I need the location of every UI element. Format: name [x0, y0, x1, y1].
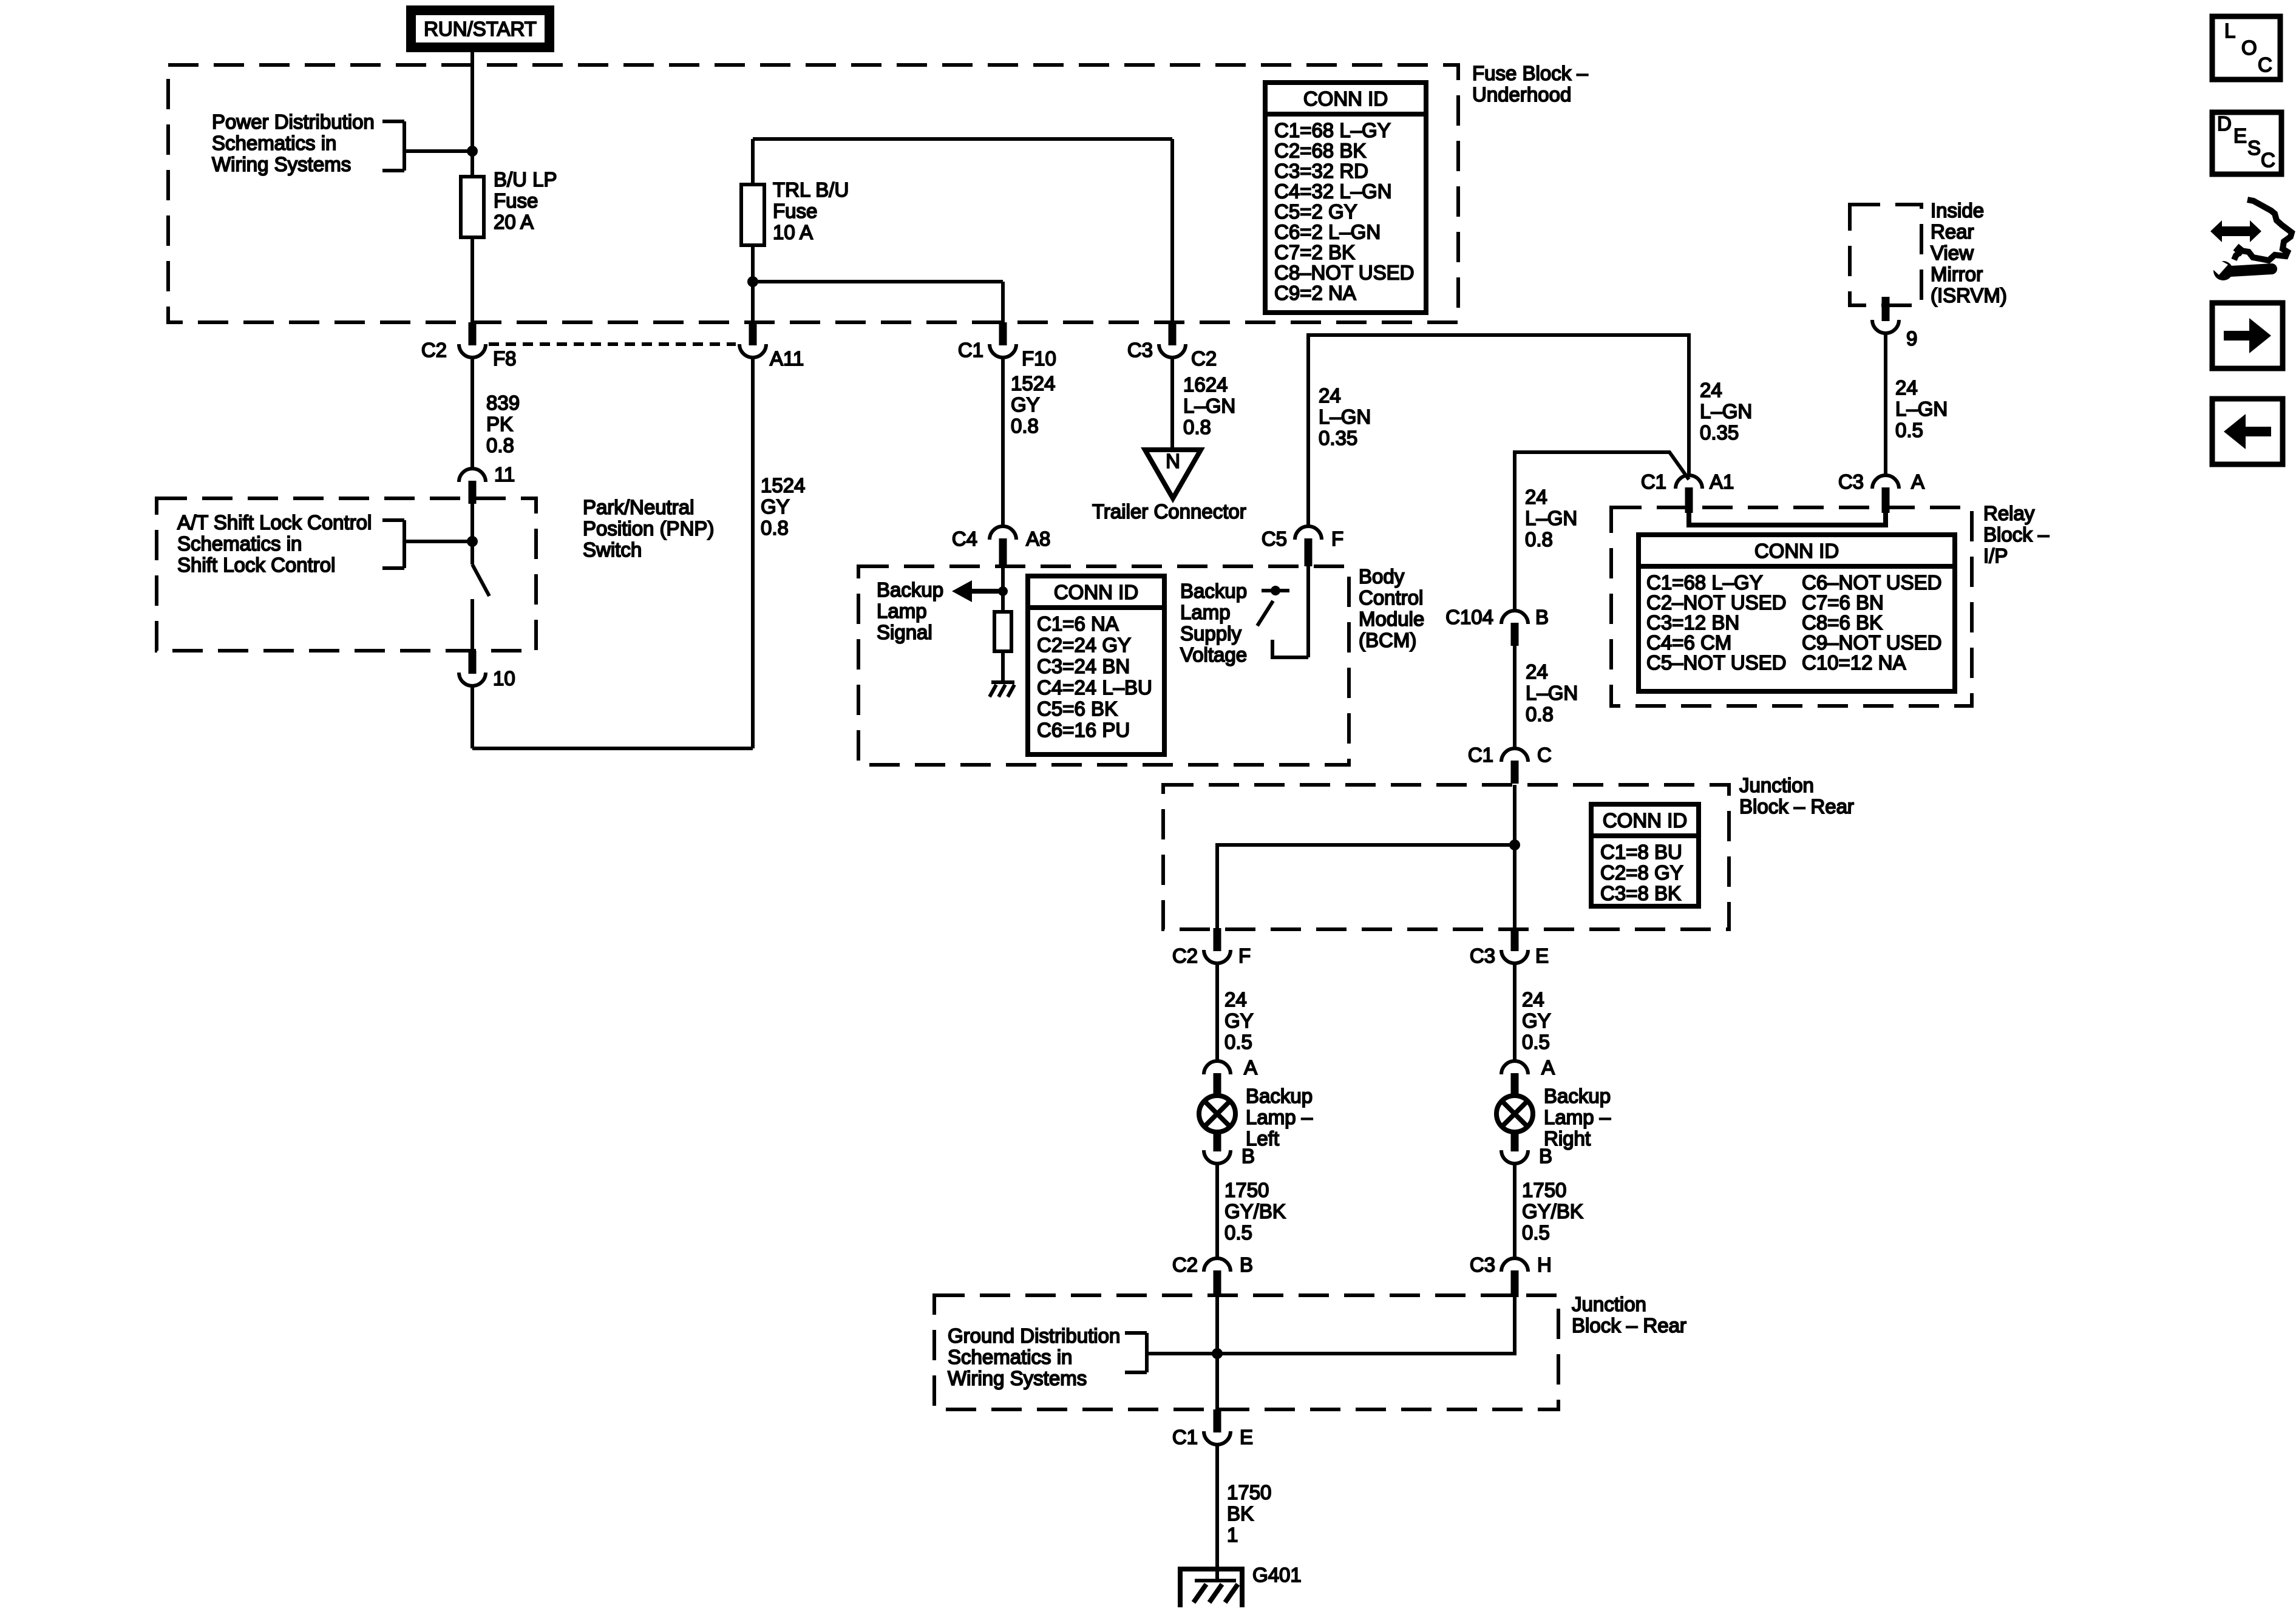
svg-text:E: E	[1240, 1426, 1253, 1448]
label wire 24 L-GN 0.35 left	[1319, 384, 1371, 449]
svg-text:Relay: Relay	[1983, 502, 2035, 524]
wire 1750 BK 1	[1215, 1445, 1219, 1579]
svg-text:GY/BK: GY/BK	[1522, 1200, 1583, 1222]
svg-text:C3: C3	[1838, 470, 1864, 493]
svg-text:C2=24 GY: C2=24 GY	[1037, 634, 1131, 656]
svg-text:GY: GY	[761, 495, 790, 518]
wire branch to C2 F	[1217, 845, 1515, 929]
wire 839 PK 0.8	[470, 358, 474, 469]
label Ground Distribution Schematics with bracket	[948, 1324, 1217, 1389]
svg-text:O: O	[2241, 36, 2257, 59]
svg-text:Wiring Systems: Wiring Systems	[948, 1367, 1087, 1389]
svg-text:CONN ID: CONN ID	[1054, 581, 1138, 603]
svg-text:C3: C3	[1127, 339, 1153, 361]
svg-text:C2–NOT USED: C2–NOT USED	[1646, 591, 1786, 614]
connector C1 pin E	[1172, 1409, 1253, 1448]
label wire 24 L-GN 0.8 upper	[1525, 486, 1577, 551]
connector pin B left lamp stub	[1204, 1131, 1231, 1164]
svg-text:Voltage: Voltage	[1180, 643, 1247, 666]
svg-text:0.35: 0.35	[1319, 427, 1357, 449]
connector C1 pin F10	[958, 322, 1056, 370]
svg-text:Supply: Supply	[1180, 622, 1241, 645]
svg-text:Schematics in: Schematics in	[177, 532, 302, 555]
component box Relay Block - I/P	[1611, 507, 1972, 706]
component box Park/Neutral Position switch	[157, 498, 536, 651]
label Inside Rear View Mirror (ISRVM)	[1931, 199, 2007, 307]
svg-text:A: A	[1244, 1056, 1257, 1079]
svg-text:G401: G401	[1252, 1564, 1302, 1586]
svg-text:B: B	[1535, 606, 1549, 628]
svg-text:N: N	[1166, 450, 1180, 472]
connector face dotted line	[489, 342, 736, 346]
component box Body Control Module	[858, 566, 1349, 765]
connector pin A11	[739, 322, 804, 370]
svg-text:RUN/START: RUN/START	[424, 18, 537, 40]
svg-text:A: A	[1911, 470, 1924, 493]
junction ground splice	[1212, 1348, 1223, 1359]
switch backup lamp supply contact	[1257, 586, 1289, 626]
icon service tools	[2210, 200, 2292, 280]
svg-text:Inside: Inside	[1931, 199, 1984, 222]
label Backup Lamp - Left	[1246, 1085, 1313, 1150]
wire supply inside BCM	[1306, 566, 1310, 657]
svg-text:TRL B/U: TRL B/U	[773, 178, 849, 201]
connector pin A left lamp	[1204, 1056, 1257, 1095]
label wire 24 GY 0.5 right	[1522, 988, 1551, 1053]
svg-text:C5=6 BK: C5=6 BK	[1037, 697, 1118, 720]
connector C3 pin A	[1838, 470, 1924, 513]
svg-text:B/U LP: B/U LP	[494, 168, 557, 191]
svg-text:Power Distribution: Power Distribution	[212, 110, 375, 133]
svg-text:CONN ID: CONN ID	[1303, 87, 1388, 110]
svg-text:View: View	[1931, 242, 1974, 264]
svg-text:C3: C3	[1470, 1253, 1495, 1276]
connector pin B right lamp stub	[1501, 1131, 1528, 1164]
svg-text:C2: C2	[1191, 347, 1217, 370]
svg-text:A11: A11	[770, 347, 804, 370]
label Backup Lamp Signal	[877, 578, 943, 643]
svg-text:1524: 1524	[761, 474, 805, 497]
svg-text:C: C	[2258, 53, 2272, 76]
connector C1 pin C	[1468, 744, 1552, 784]
svg-text:C5=2 GY: C5=2 GY	[1274, 200, 1357, 223]
wire relay block A1 to A jumper	[1689, 512, 1886, 525]
label wire 1750 BK 1	[1227, 1481, 1271, 1546]
wire switch bracket	[1272, 640, 1308, 657]
svg-text:C104: C104	[1445, 606, 1493, 628]
wire 24 L-GN 0.5 ISRVM to relay A	[1884, 333, 1887, 475]
label wire 1524 GY 0.8	[1011, 372, 1055, 437]
svg-text:(ISRVM): (ISRVM)	[1931, 284, 2007, 307]
label wire 1750 GY/BK 0.5 left	[1224, 1179, 1286, 1244]
svg-text:C7=6 BN: C7=6 BN	[1802, 591, 1884, 614]
svg-text:C8–NOT USED: C8–NOT USED	[1274, 262, 1414, 284]
wire 24 L-GN 0.8 A1 to C104	[1515, 452, 1689, 611]
label wire 1624 L-GN 0.8	[1183, 373, 1235, 438]
wire into PNP switch	[470, 504, 474, 564]
label Relay Block - I/P	[1983, 502, 2050, 567]
wire 24 L-GN 0.8 to junction block	[1513, 646, 1517, 748]
svg-text:0.8: 0.8	[1011, 415, 1039, 437]
svg-text:Block – Rear: Block – Rear	[1739, 795, 1854, 818]
svg-text:Fuse: Fuse	[494, 189, 538, 212]
label wire 24 L-GN 0.8 lower	[1526, 660, 1578, 725]
svg-text:Backup: Backup	[877, 578, 943, 601]
svg-text:F10: F10	[1022, 347, 1056, 370]
svg-text:F: F	[1331, 527, 1343, 550]
svg-text:Backup: Backup	[1544, 1085, 1611, 1107]
svg-text:24: 24	[1700, 379, 1722, 401]
connector C1 pin A1	[1641, 470, 1734, 513]
svg-text:C6–NOT USED: C6–NOT USED	[1802, 571, 1941, 594]
svg-text:BK: BK	[1227, 1502, 1254, 1525]
wire ground through junction block	[1215, 1297, 1219, 1409]
svg-text:C3=32 RD: C3=32 RD	[1274, 160, 1368, 182]
svg-text:C8=6 BK: C8=6 BK	[1802, 611, 1883, 634]
icon DESC box	[2212, 112, 2281, 174]
svg-text:PK: PK	[486, 413, 513, 435]
icon LOC box	[2212, 16, 2280, 80]
svg-text:GY: GY	[1224, 1009, 1254, 1032]
svg-text:F8: F8	[493, 347, 517, 370]
svg-text:L–GN: L–GN	[1183, 395, 1235, 417]
svg-text:Lamp –: Lamp –	[1544, 1106, 1611, 1128]
wire 1750 GY/BK 0.5 right	[1513, 1164, 1517, 1258]
CONN ID table relay block	[1639, 535, 1955, 691]
svg-text:GY: GY	[1011, 393, 1040, 416]
svg-text:C3: C3	[1470, 944, 1495, 967]
svg-text:1750: 1750	[1227, 1481, 1271, 1503]
wire fuse to terminal F8	[470, 237, 474, 324]
svg-text:C6=16 PU: C6=16 PU	[1037, 719, 1130, 741]
svg-text:Control: Control	[1359, 586, 1423, 609]
svg-text:GY: GY	[1522, 1009, 1551, 1032]
svg-text:C: C	[2261, 149, 2275, 171]
wire RUN/START to fuse F8	[470, 52, 474, 177]
label wire 1750 GY/BK 0.5 right	[1522, 1179, 1583, 1244]
svg-text:Fuse Block –: Fuse Block –	[1472, 62, 1588, 84]
svg-text:CONN ID: CONN ID	[1603, 809, 1687, 832]
svg-text:C: C	[1537, 744, 1552, 766]
node RUN/START voltage source box	[411, 10, 549, 47]
wire through junction block	[1513, 785, 1517, 929]
label TRL B/U Fuse 10 A	[773, 178, 849, 243]
label Backup Lamp Supply Voltage	[1180, 580, 1247, 666]
svg-text:CONN ID: CONN ID	[1754, 540, 1839, 562]
connector C3 pin C2	[1127, 322, 1217, 370]
svg-text:1750: 1750	[1522, 1179, 1566, 1201]
CONN ID table BCM	[1028, 576, 1164, 754]
connector pin 10	[459, 651, 515, 690]
connector C5 pin F	[1262, 526, 1343, 566]
svg-text:Block –: Block –	[1983, 523, 2050, 546]
svg-text:Underhood: Underhood	[1472, 83, 1571, 106]
svg-text:C10=12 NA: C10=12 NA	[1802, 651, 1906, 674]
svg-text:C5: C5	[1262, 527, 1287, 550]
svg-text:1624: 1624	[1183, 373, 1228, 396]
svg-text:C1=68 L–GY: C1=68 L–GY	[1274, 119, 1391, 141]
svg-text:C5–NOT USED: C5–NOT USED	[1646, 651, 1786, 674]
svg-text:F: F	[1238, 944, 1251, 967]
svg-text:24: 24	[1526, 660, 1548, 683]
svg-text:Ground Distribution: Ground Distribution	[948, 1324, 1120, 1347]
label pin B right	[1539, 1145, 1552, 1167]
wire 1624 L-GN 0.8	[1170, 358, 1174, 452]
svg-text:0.5: 0.5	[1224, 1221, 1252, 1244]
component box Inside Rear View Mirror	[1850, 205, 1921, 305]
svg-text:Wiring Systems: Wiring Systems	[212, 153, 351, 175]
junction to shift lock control	[467, 536, 478, 547]
svg-text:L: L	[2224, 19, 2235, 42]
svg-text:(BCM): (BCM)	[1359, 629, 1416, 651]
label Backup Lamp - Right	[1544, 1085, 1611, 1150]
svg-text:Signal: Signal	[877, 621, 932, 643]
wire splice to terminal F10	[753, 282, 1003, 324]
svg-text:Park/Neutral: Park/Neutral	[583, 496, 694, 518]
wire 24 GY 0.5 right	[1513, 963, 1517, 1061]
svg-text:0.5: 0.5	[1522, 1221, 1550, 1244]
wire 1524 GY 0.8	[1001, 358, 1005, 526]
svg-text:Shift Lock Control: Shift Lock Control	[177, 554, 335, 576]
junction backup lamp signal	[998, 586, 1008, 596]
label wire 839 PK 0.8	[486, 392, 520, 456]
wire C3 H to ground splice	[1217, 1297, 1515, 1354]
label wire 24 L-GN 0.5	[1895, 376, 1948, 441]
resistor BCM pull-down	[994, 612, 1011, 651]
lamp Backup Lamp - Left	[1199, 1096, 1235, 1132]
label Body Control Module (BCM)	[1359, 565, 1424, 651]
label Junction Block - Rear lower	[1572, 1293, 1686, 1337]
svg-text:L–GN: L–GN	[1526, 682, 1578, 704]
svg-text:C2: C2	[1172, 944, 1198, 967]
svg-text:24: 24	[1895, 376, 1918, 399]
svg-text:0.35: 0.35	[1700, 421, 1739, 444]
svg-text:24: 24	[1525, 486, 1547, 508]
label Power Distribution Schematics in Wiring Systems with bracket	[212, 110, 472, 175]
svg-text:C4=6 CM: C4=6 CM	[1646, 631, 1731, 654]
svg-text:C1: C1	[1468, 744, 1493, 766]
label wire 1524 GY 0.8 left	[761, 474, 805, 539]
svg-text:0.8: 0.8	[1525, 528, 1553, 551]
svg-text:Trailer Connector: Trailer Connector	[1092, 500, 1246, 523]
svg-text:D: D	[2217, 112, 2232, 135]
svg-text:0.5: 0.5	[1895, 419, 1923, 441]
svg-text:Schematics in: Schematics in	[212, 132, 336, 154]
svg-text:C2=68 BK: C2=68 BK	[1274, 140, 1366, 162]
svg-text:Block – Rear: Block – Rear	[1572, 1314, 1686, 1337]
svg-text:C9–NOT USED: C9–NOT USED	[1802, 631, 1941, 654]
svg-text:0.5: 0.5	[1224, 1031, 1252, 1053]
wire 24 GY 0.5 left	[1215, 963, 1219, 1061]
connector C104 pin B	[1445, 606, 1549, 646]
svg-text:H: H	[1537, 1253, 1552, 1276]
svg-text:GY/BK: GY/BK	[1224, 1200, 1286, 1222]
svg-text:Rear: Rear	[1931, 220, 1974, 243]
svg-text:Mirror: Mirror	[1931, 263, 1983, 285]
label wire 24 GY 0.5 left	[1224, 988, 1254, 1053]
trailer connector symbol N	[1145, 450, 1201, 498]
ground BCM internal	[990, 682, 1014, 697]
svg-text:I/P: I/P	[1983, 544, 2008, 567]
svg-text:Junction: Junction	[1739, 774, 1814, 796]
label pin B left	[1241, 1145, 1255, 1167]
svg-text:0.5: 0.5	[1522, 1031, 1550, 1053]
svg-text:839: 839	[486, 392, 520, 414]
svg-text:C4: C4	[952, 527, 977, 550]
svg-text:C9=2 NA: C9=2 NA	[1274, 282, 1356, 304]
svg-text:C3=24 BN: C3=24 BN	[1037, 655, 1130, 677]
svg-text:C3=12 BN: C3=12 BN	[1646, 611, 1739, 634]
svg-text:A/T Shift Lock Control: A/T Shift Lock Control	[177, 511, 372, 534]
connector C3 pin H	[1470, 1253, 1552, 1297]
connector C2 pin F	[1172, 928, 1251, 967]
svg-text:E: E	[1535, 944, 1549, 967]
svg-text:1750: 1750	[1224, 1179, 1269, 1201]
connector C2 pin F8	[421, 322, 517, 370]
connector C4 pin A8	[952, 526, 1051, 566]
svg-text:L–GN: L–GN	[1319, 405, 1371, 428]
svg-text:1: 1	[1227, 1524, 1238, 1546]
svg-text:L–GN: L–GN	[1895, 398, 1948, 420]
fuse B/U LP 20A	[461, 177, 484, 237]
svg-text:A: A	[1541, 1056, 1555, 1079]
connector C2 pin B	[1172, 1253, 1253, 1297]
svg-text:L–GN: L–GN	[1525, 507, 1577, 529]
svg-text:9: 9	[1906, 327, 1917, 350]
label A/T Shift Lock Control Schematics with bracket	[177, 511, 472, 576]
svg-text:24: 24	[1319, 384, 1341, 407]
component box Junction Block - Rear upper	[1163, 785, 1729, 929]
svg-text:C3=8 BK: C3=8 BK	[1600, 882, 1681, 904]
label Fuse Block - Underhood	[1472, 62, 1588, 106]
svg-text:C4=24 L–BU: C4=24 L–BU	[1037, 676, 1152, 699]
svg-text:C2: C2	[421, 339, 447, 361]
svg-text:C7=2 BK: C7=2 BK	[1274, 241, 1355, 263]
component box Fuse Block - Underhood	[168, 65, 1458, 322]
icon arrow left box	[2212, 399, 2283, 464]
svg-text:Position (PNP): Position (PNP)	[583, 517, 714, 540]
connector pin 11	[459, 463, 515, 504]
svg-text:A8: A8	[1026, 527, 1050, 550]
wire resistor to ground	[1001, 651, 1005, 682]
lamp Backup Lamp - Right	[1496, 1096, 1533, 1132]
icon arrow right box	[2212, 303, 2283, 368]
svg-text:Lamp: Lamp	[1180, 601, 1231, 623]
svg-text:C1=8 BU: C1=8 BU	[1600, 841, 1682, 863]
svg-text:L–GN: L–GN	[1700, 400, 1752, 422]
svg-text:Junction: Junction	[1572, 1293, 1646, 1315]
wire backup lamp signal	[1001, 566, 1005, 612]
wire TRL fuse bottom to terminal A11	[751, 245, 755, 324]
svg-text:Fuse: Fuse	[773, 200, 817, 222]
label wire 24 L-GN 0.35 right	[1700, 379, 1752, 444]
ground G401	[1178, 1564, 1302, 1607]
svg-text:C2=8 GY: C2=8 GY	[1600, 861, 1683, 884]
svg-text:E: E	[2233, 124, 2247, 147]
svg-text:Switch: Switch	[583, 538, 642, 561]
connector C3 pin E	[1470, 928, 1549, 967]
svg-text:11: 11	[494, 463, 515, 486]
junction TRL fuse splice	[747, 276, 758, 287]
svg-text:S: S	[2247, 137, 2261, 159]
svg-text:C6=2 L–GN: C6=2 L–GN	[1274, 221, 1381, 243]
label Junction Block - Rear upper	[1739, 774, 1854, 818]
wire switch to pin 10	[470, 599, 474, 652]
svg-text:0.8: 0.8	[1526, 703, 1554, 725]
CONN ID table fuse block	[1265, 83, 1426, 313]
svg-text:C1=68 L–GY: C1=68 L–GY	[1646, 571, 1763, 594]
svg-text:C1=6 NA: C1=6 NA	[1037, 612, 1119, 635]
svg-text:1524: 1524	[1011, 372, 1055, 395]
svg-text:24: 24	[1522, 988, 1544, 1011]
svg-text:B: B	[1241, 1145, 1255, 1167]
svg-text:10: 10	[493, 667, 515, 690]
label Park/Neutral Position (PNP) Switch	[583, 496, 714, 561]
wire 24 L-GN 0.35 supply to relay A1	[1308, 335, 1689, 526]
svg-text:C1: C1	[958, 339, 983, 361]
connector pin 9	[1872, 297, 1917, 350]
svg-text:C2: C2	[1172, 1253, 1198, 1276]
arrow backup lamp signal output	[952, 580, 1003, 602]
svg-text:B: B	[1539, 1145, 1552, 1167]
junction splice in junction block	[1509, 839, 1520, 850]
svg-text:20 A: 20 A	[494, 211, 534, 233]
svg-text:0.8: 0.8	[761, 517, 789, 539]
svg-text:Schematics in: Schematics in	[948, 1346, 1072, 1368]
svg-text:Body: Body	[1359, 565, 1405, 588]
wire pin 10 to pin A11 L-shape	[472, 358, 753, 748]
wire 1750 GY/BK 0.5 left	[1215, 1164, 1219, 1258]
svg-text:Module: Module	[1359, 608, 1424, 630]
svg-text:B: B	[1240, 1253, 1253, 1276]
svg-text:Lamp –: Lamp –	[1246, 1106, 1313, 1128]
svg-text:24: 24	[1224, 988, 1247, 1011]
component box Junction Block - Rear lower	[934, 1295, 1558, 1409]
svg-text:0.8: 0.8	[1183, 416, 1211, 438]
svg-text:Lamp: Lamp	[877, 600, 927, 622]
switch arm PNP	[472, 564, 489, 596]
svg-text:0.8: 0.8	[486, 434, 514, 456]
wire TRL fuse top to terminal C2 of C3	[753, 139, 1172, 324]
svg-text:A1: A1	[1710, 470, 1734, 493]
junction to power distribution	[467, 146, 478, 157]
svg-text:Backup: Backup	[1246, 1085, 1313, 1107]
svg-text:C1: C1	[1641, 470, 1666, 493]
label B/U LP Fuse 20 A	[494, 168, 557, 233]
svg-text:C1: C1	[1172, 1426, 1198, 1448]
svg-text:Backup: Backup	[1180, 580, 1247, 602]
connector pin A right lamp	[1501, 1056, 1555, 1095]
svg-text:10 A: 10 A	[773, 221, 813, 243]
CONN ID table junction block	[1591, 804, 1699, 906]
svg-text:C4=32 L–GN: C4=32 L–GN	[1274, 180, 1392, 203]
label Trailer Connector	[1092, 500, 1246, 523]
fuse TRL B/U 10A	[741, 185, 764, 245]
